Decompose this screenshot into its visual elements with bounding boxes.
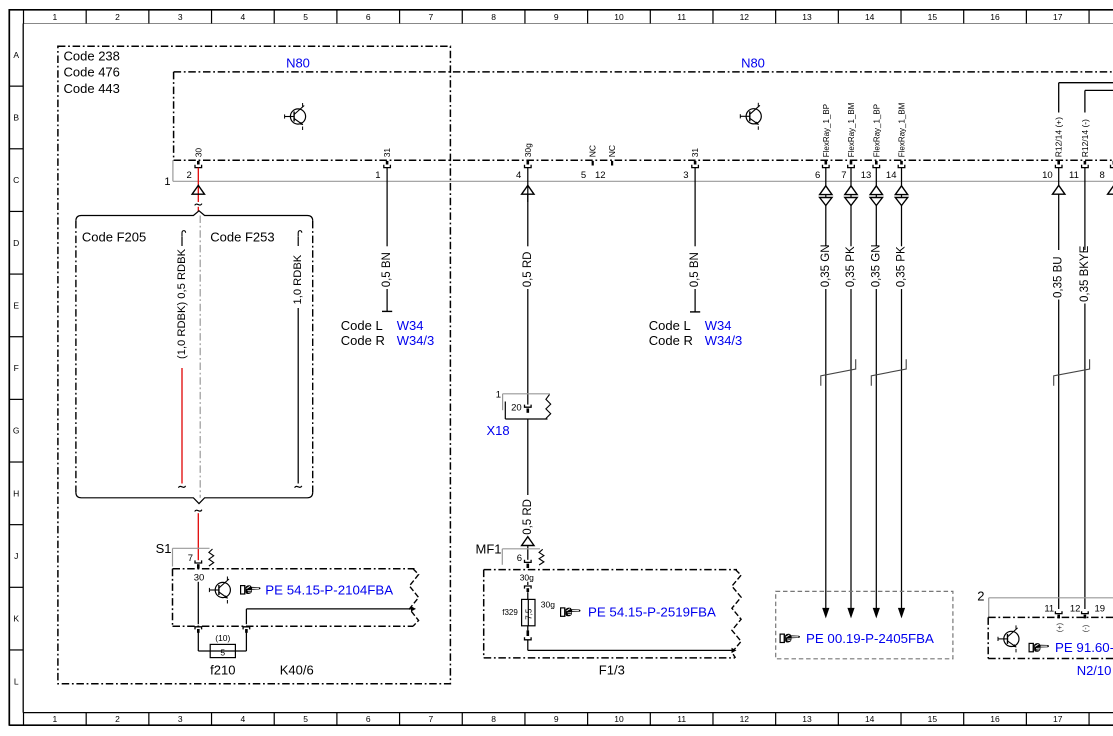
svg-text:W34: W34	[705, 318, 732, 333]
connector separation arrow above MF1	[522, 537, 534, 546]
fuse and relay module K40/6 box	[173, 568, 415, 570]
wire 0,35 BU	[1058, 168, 1060, 186]
svg-text:10: 10	[1042, 170, 1053, 181]
svg-text:1: 1	[52, 714, 57, 724]
wire 0,35 GN from FlexRay pin	[875, 168, 877, 186]
fuse f329 7,5A	[522, 599, 535, 625]
svg-text:K: K	[13, 614, 19, 624]
pin 13 (FlexRay_1_BP)	[875, 161, 878, 165]
output stage transistor in K40/6	[209, 577, 230, 604]
svg-text:f210: f210	[210, 663, 235, 678]
pin 1 (circuit 31)	[386, 161, 389, 165]
arrow into harness	[847, 608, 854, 619]
svg-text:13: 13	[861, 170, 872, 181]
pin 5 (NC)	[592, 161, 594, 166]
wire 0,35 BKYE	[1084, 168, 1086, 250]
svg-text:NC: NC	[588, 145, 598, 157]
svg-text:PE 54.15-P-2104FBA: PE 54.15-P-2104FBA	[265, 583, 393, 598]
svg-text:12: 12	[740, 714, 750, 724]
svg-text:F1/3: F1/3	[599, 663, 625, 678]
svg-text:R12/14 (-): R12/14 (-)	[1080, 119, 1090, 157]
pin 6 (FlexRay_1_BP)	[825, 161, 828, 165]
twisted pair marker (pins 13/14)	[871, 359, 906, 385]
svg-text:MF1: MF1	[476, 541, 502, 556]
svg-text:4: 4	[241, 12, 246, 22]
svg-text:14: 14	[865, 12, 875, 22]
svg-text:E: E	[13, 300, 19, 310]
wire inside K40/6	[197, 582, 199, 624]
svg-text:FlexRay_1_BM: FlexRay_1_BM	[847, 102, 856, 157]
variant wire (1,0 RDBK) 0,5 RDBK	[182, 231, 186, 237]
arrow into harness	[822, 608, 829, 619]
svg-text:0,35 BU: 0,35 BU	[1053, 256, 1065, 298]
svg-text:Code 443: Code 443	[64, 81, 120, 96]
svg-text:17: 17	[1053, 12, 1063, 22]
svg-text:(10): (10)	[215, 633, 230, 643]
wire inside N80 to pin 10	[1059, 82, 1113, 84]
variant box right edge	[312, 221, 314, 493]
svg-text:1,0 RDBK: 1,0 RDBK	[292, 254, 304, 304]
inner pin 30g of F1/3	[527, 582, 529, 585]
svg-text:N80: N80	[741, 55, 765, 70]
hand pointer icon	[561, 608, 581, 617]
option box Code 238 / Code 476 / Code 443	[58, 46, 451, 684]
svg-text:30g: 30g	[541, 600, 555, 610]
svg-text:31: 31	[382, 148, 392, 158]
svg-text:Code L: Code L	[341, 318, 383, 333]
bottom pin of K40/6 (right)	[243, 627, 250, 630]
svg-text:PE 54.15-P-2519FBA: PE 54.15-P-2519FBA	[588, 605, 716, 620]
svg-text:7: 7	[188, 553, 193, 564]
svg-text:12: 12	[740, 12, 750, 22]
svg-text:16: 16	[990, 12, 1000, 22]
svg-text:A: A	[13, 50, 19, 60]
wire inside N80 to pin 11	[1085, 89, 1113, 91]
svg-text:0,5 RD: 0,5 RD	[522, 499, 534, 535]
svg-text:PE 91.60-P-2: PE 91.60-P-2	[1055, 640, 1113, 655]
svg-text:11: 11	[1044, 603, 1054, 614]
svg-text:30g: 30g	[523, 143, 533, 157]
svg-text:19: 19	[1095, 603, 1106, 614]
svg-text:S1: S1	[156, 541, 172, 556]
variant box divider	[199, 216, 201, 498]
svg-text:0,5 RD: 0,5 RD	[522, 252, 534, 288]
svg-text:PE 00.19-P-2405FBA: PE 00.19-P-2405FBA	[806, 631, 934, 646]
svg-text:2: 2	[115, 12, 120, 22]
svg-text:(1,0 RDBK) 0,5 RDBK: (1,0 RDBK) 0,5 RDBK	[176, 248, 188, 359]
hand pointer icon	[1029, 643, 1049, 652]
svg-text:W34: W34	[397, 318, 424, 333]
svg-text:FlexRay_1_BP: FlexRay_1_BP	[872, 104, 881, 157]
svg-text:10: 10	[614, 714, 624, 724]
control unit N2/1 box	[988, 616, 1113, 618]
svg-text:7: 7	[429, 12, 434, 22]
svg-text:Code R: Code R	[649, 333, 693, 348]
ground point W34 bar	[382, 310, 392, 312]
svg-text:Code F205: Code F205	[82, 230, 146, 245]
output stage transistor in N2/1	[998, 625, 1019, 652]
variant box bottom brace	[76, 492, 313, 503]
svg-text:0,35 BKYE: 0,35 BKYE	[1079, 245, 1091, 302]
svg-text:11: 11	[1069, 170, 1079, 181]
pin 7 (FlexRay_1_BM)	[850, 161, 853, 165]
wire 0,5 BN from pin 1	[386, 168, 388, 247]
pin 11 (R12/14 (-))	[1084, 161, 1087, 165]
arrow into harness	[898, 608, 905, 619]
svg-text:L: L	[14, 676, 19, 686]
svg-text:9: 9	[554, 714, 559, 724]
svg-text:6: 6	[366, 714, 371, 724]
svg-text:H: H	[13, 488, 19, 498]
svg-text:4: 4	[241, 714, 246, 724]
svg-text:(-): (-)	[1081, 624, 1090, 632]
wire below fuse f329	[527, 626, 529, 631]
svg-text:13: 13	[802, 714, 812, 724]
internal wire exiting K40/6	[246, 608, 413, 610]
svg-text:8: 8	[1100, 170, 1105, 181]
double connector arrows	[845, 186, 857, 195]
bottom pin of K40/6 (left)	[195, 627, 202, 630]
variant box top brace	[76, 211, 313, 221]
svg-text:14: 14	[865, 714, 875, 724]
variant box left edge	[75, 221, 77, 493]
double connector arrows	[820, 186, 832, 195]
svg-text:6: 6	[366, 12, 371, 22]
svg-text:1: 1	[164, 176, 170, 188]
wire 0,5 BN from pin 3	[694, 168, 696, 247]
svg-text:6: 6	[815, 170, 820, 181]
wire 0,5 RD from pin 4	[527, 168, 529, 202]
svg-text:0,35 GN: 0,35 GN	[820, 244, 832, 287]
svg-text:2: 2	[977, 588, 984, 603]
svg-text:Code 238: Code 238	[64, 49, 120, 64]
output stage transistor U-b in N80	[740, 103, 761, 130]
svg-text:5: 5	[581, 170, 586, 181]
svg-text:R12/14 (+): R12/14 (+)	[1054, 117, 1064, 158]
svg-text:3: 3	[178, 714, 183, 724]
svg-text:2: 2	[115, 714, 120, 724]
svg-text:W34/3: W34/3	[397, 333, 435, 348]
connector 1 strip of N80	[172, 160, 174, 181]
svg-text:8: 8	[491, 12, 496, 22]
pin 4 (circuit 30g)	[527, 161, 530, 165]
wire 0,35 PK from FlexRay pin	[850, 168, 852, 186]
wire to fuse f210	[197, 631, 199, 651]
svg-text:20: 20	[511, 402, 522, 413]
pin 12 (NC)	[611, 161, 613, 166]
svg-text:0,35 GN: 0,35 GN	[870, 244, 882, 287]
svg-text:0,35 PK: 0,35 PK	[896, 246, 908, 287]
wire pin2 red 0,5 RDBK	[197, 168, 199, 202]
connector separation arrow below pin 2	[192, 185, 204, 194]
svg-text:15: 15	[928, 714, 938, 724]
svg-text:16: 16	[990, 714, 1000, 724]
wire from variant box to S1 (red)	[195, 510, 202, 512]
arrow at pin 8 wire (clipped)	[1108, 185, 1113, 194]
svg-text:2: 2	[187, 170, 192, 181]
connector separation arrow below pin 10	[1053, 185, 1065, 194]
svg-text:N80: N80	[286, 55, 310, 70]
prefuse box F1/3	[484, 569, 737, 571]
twisted pair marker (pins 6/7)	[821, 359, 856, 385]
svg-text:5: 5	[303, 12, 308, 22]
wire 0,5 RD below X18	[527, 419, 529, 495]
svg-text:J: J	[14, 551, 18, 561]
double connector arrows	[895, 186, 907, 195]
svg-text:X18: X18	[487, 423, 510, 438]
pin 3 (circuit 31)	[694, 161, 697, 165]
connector separation arrow below pin 4	[522, 185, 534, 194]
output stage transistor U-a in N80	[285, 103, 306, 130]
svg-text:FlexRay_1_BM: FlexRay_1_BM	[898, 102, 907, 157]
svg-text:1: 1	[496, 389, 501, 400]
wire continues red	[197, 207, 199, 212]
svg-text:(+): (+)	[1055, 622, 1064, 632]
svg-text:3: 3	[178, 12, 183, 22]
svg-text:11: 11	[677, 12, 686, 22]
svg-text:30: 30	[194, 572, 205, 583]
svg-text:31: 31	[690, 148, 700, 158]
control unit N80 box	[174, 71, 1113, 73]
ground point W34 bar (right)	[690, 311, 700, 313]
svg-text:30: 30	[193, 148, 203, 158]
svg-text:12: 12	[595, 170, 606, 181]
wire 0,35 PK from FlexRay pin	[901, 168, 903, 186]
pin 10 (R12/14 (+))	[1057, 161, 1060, 165]
svg-text:FlexRay_1_BP: FlexRay_1_BP	[822, 104, 831, 157]
svg-text:14: 14	[886, 170, 897, 181]
svg-text:Code L: Code L	[649, 318, 691, 333]
svg-text:13: 13	[802, 12, 812, 22]
svg-text:7: 7	[429, 714, 434, 724]
splice squiggle	[195, 204, 202, 206]
svg-text:0,5 BN: 0,5 BN	[381, 252, 393, 287]
pin 2 (circuit 30)	[197, 161, 200, 165]
svg-text:7: 7	[841, 170, 846, 181]
reference box PE 00.19-P-2405FBA	[776, 591, 953, 658]
svg-text:NC: NC	[607, 145, 617, 157]
svg-text:F: F	[14, 363, 19, 373]
twisted pair marker (pins 10/11)	[1054, 359, 1090, 385]
svg-text:8: 8	[491, 714, 496, 724]
svg-text:11: 11	[677, 714, 686, 724]
svg-text:6: 6	[517, 553, 522, 564]
svg-text:D: D	[13, 238, 19, 248]
wire 0,35 GN from FlexRay pin	[825, 168, 827, 186]
svg-text:10: 10	[614, 12, 624, 22]
svg-text:0,35 PK: 0,35 PK	[845, 246, 857, 287]
svg-text:15: 15	[928, 12, 938, 22]
svg-text:12: 12	[1070, 603, 1081, 614]
svg-text:9: 9	[554, 12, 559, 22]
svg-text:0,5 BN: 0,5 BN	[689, 252, 701, 287]
svg-text:17: 17	[1053, 714, 1063, 724]
arrow into harness	[873, 608, 880, 619]
svg-text:f329: f329	[502, 608, 518, 617]
svg-text:N2/10: N2/10	[1077, 663, 1112, 678]
svg-text:5: 5	[220, 648, 225, 658]
svg-text:W34/3: W34/3	[705, 333, 743, 348]
hand pointer icon	[241, 585, 261, 594]
svg-text:Code R: Code R	[341, 333, 385, 348]
svg-text:G: G	[13, 426, 20, 436]
svg-text:1: 1	[52, 12, 57, 22]
svg-text:B: B	[13, 112, 19, 122]
svg-text:1: 1	[375, 170, 380, 181]
svg-text:5: 5	[303, 714, 308, 724]
svg-text:7,5: 7,5	[525, 608, 534, 620]
svg-text:C: C	[13, 175, 19, 185]
svg-text:30g: 30g	[520, 573, 534, 583]
svg-text:Code 476: Code 476	[64, 65, 120, 80]
svg-text:Code F253: Code F253	[210, 230, 274, 245]
variant wire 1,0 RDBK	[298, 231, 302, 237]
double connector arrows	[870, 186, 882, 195]
svg-text:K40/6: K40/6	[280, 663, 314, 678]
pin 14 (FlexRay_1_BM)	[900, 161, 903, 165]
svg-text:3: 3	[683, 170, 688, 181]
svg-text:4: 4	[516, 170, 521, 181]
